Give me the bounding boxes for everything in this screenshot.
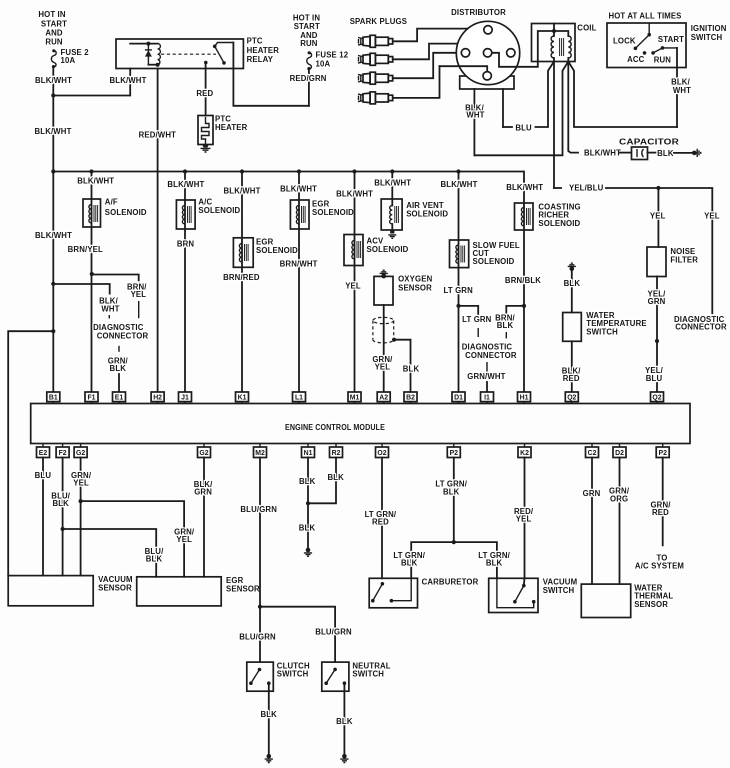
svg-text:M1: M1 bbox=[350, 395, 360, 402]
wire coil to YEL/BLU line bbox=[553, 62, 555, 189]
wire C2 column bbox=[591, 458, 593, 585]
relay diode D1 bbox=[145, 44, 152, 65]
svg-text:BLK: BLK bbox=[564, 279, 581, 288]
ignition ACC contact bbox=[643, 51, 647, 55]
node A/F diag branch bbox=[90, 272, 94, 276]
coil core bbox=[560, 38, 564, 56]
svg-text:F1: F1 bbox=[87, 395, 95, 402]
label A/C SOLENOID bbox=[198, 197, 240, 214]
label DIAGNOSTIC CONNECTOR (left) bbox=[93, 323, 148, 341]
svg-text:BLU/GRN: BLU/GRN bbox=[240, 505, 277, 514]
label EGR SOLENOID (L1) bbox=[312, 200, 354, 218]
svg-text:HEATER: HEATER bbox=[215, 123, 248, 132]
node D1 diag branch bbox=[456, 304, 460, 308]
connector B1 bbox=[47, 392, 60, 404]
label BLU/ BLK (EGR drop) bbox=[145, 547, 164, 564]
spark plug 3 bbox=[358, 72, 393, 84]
svg-text:BLK/WHT: BLK/WHT bbox=[441, 180, 478, 189]
node coil top bbox=[552, 29, 556, 33]
svg-text:FUSE 12: FUSE 12 bbox=[316, 50, 349, 59]
ignition RUN arm bbox=[653, 48, 677, 53]
label GRN/ YEL (A2) bbox=[372, 355, 393, 372]
label YEL/ GRN bbox=[648, 290, 667, 307]
ACV solenoid box bbox=[344, 235, 363, 266]
wire plug4 to distributor bbox=[393, 66, 440, 98]
wire capacitor left lead bbox=[620, 152, 632, 154]
carburetor box bbox=[369, 578, 417, 608]
svg-text:BRN/RED: BRN/RED bbox=[223, 273, 260, 282]
ground (PTC heater) bbox=[201, 145, 211, 153]
svg-text:BLK: BLK bbox=[657, 149, 674, 158]
svg-text:CONNECTOR: CONNECTOR bbox=[465, 351, 517, 360]
svg-text:ACC: ACC bbox=[627, 55, 645, 64]
label NOISE FILTER bbox=[670, 247, 698, 265]
node bus M1 bbox=[352, 169, 356, 173]
air vent solenoid box bbox=[381, 199, 402, 230]
splice symbol (water temp) bbox=[568, 263, 576, 271]
connector G2 bbox=[74, 444, 87, 458]
label GRN/ ORG (D2) bbox=[609, 487, 630, 504]
node P2 branch bbox=[452, 540, 456, 544]
connector O2 bbox=[376, 444, 389, 458]
wire main BLK/WHT bus bbox=[53, 172, 524, 204]
svg-text:RED/WHT: RED/WHT bbox=[139, 131, 177, 140]
wire M2 branch to neutral switch bbox=[260, 607, 335, 662]
label BRN/ YEL (diag drop) bbox=[127, 283, 147, 300]
svg-text:RED: RED bbox=[652, 508, 669, 517]
node relay coil bottom bbox=[156, 63, 160, 67]
wire distributor lead down to BLU bbox=[502, 89, 504, 127]
wire BRN/YEL dash bbox=[138, 301, 140, 318]
connector P2 bbox=[447, 444, 460, 458]
wire B1 column bbox=[52, 172, 54, 393]
svg-text:H2: H2 bbox=[153, 395, 162, 402]
ground (clutch) bbox=[265, 754, 273, 763]
wire neutral switch to ground bbox=[343, 683, 345, 754]
label BLK/WHT (distributor) bbox=[465, 103, 485, 119]
EGR solenoid box (L1) bbox=[290, 200, 309, 229]
svg-text:ENGINE CONTROL MODULE: ENGINE CONTROL MODULE bbox=[285, 423, 385, 432]
ground (neutral) bbox=[340, 754, 348, 763]
svg-text:SOLENOID: SOLENOID bbox=[105, 208, 147, 217]
label GRN/ RED (P2 A/C) bbox=[650, 501, 671, 518]
svg-text:BLK: BLK bbox=[52, 499, 69, 508]
carburetor switch bbox=[371, 578, 411, 602]
svg-text:L1: L1 bbox=[295, 395, 303, 402]
svg-text:BLK: BLK bbox=[401, 559, 418, 568]
label TO A/C SYSTEM bbox=[635, 554, 684, 571]
clutch switch box bbox=[247, 662, 273, 691]
svg-text:WHT: WHT bbox=[101, 304, 119, 313]
svg-text:CONNECTOR: CONNECTOR bbox=[675, 323, 727, 332]
connector I1 bbox=[481, 392, 494, 404]
label VACUUM SENSOR bbox=[98, 575, 133, 592]
svg-text:SOLENOID: SOLENOID bbox=[367, 245, 409, 254]
svg-text:RUN: RUN bbox=[654, 56, 672, 65]
connector J1 bbox=[179, 392, 192, 404]
wire A/F column bbox=[91, 172, 93, 393]
wire GRN/WHT to I1 bbox=[486, 382, 488, 392]
svg-text:BLK/WHT: BLK/WHT bbox=[584, 148, 621, 157]
connector Q2 (water temp) bbox=[565, 392, 578, 404]
coil primary winding bbox=[551, 36, 554, 58]
svg-text:G2: G2 bbox=[199, 450, 208, 457]
wire N1 column bbox=[307, 458, 309, 551]
svg-text:F2: F2 bbox=[59, 450, 67, 457]
svg-text:START: START bbox=[294, 22, 320, 31]
svg-text:BLK/WHT: BLK/WHT bbox=[35, 76, 72, 85]
wire fuse2 down to bus bbox=[52, 68, 54, 172]
connector D1 bbox=[452, 392, 465, 404]
connector F2 bbox=[56, 444, 69, 458]
svg-text:GRN: GRN bbox=[194, 488, 212, 497]
EGR solenoid coil (K1) bbox=[239, 244, 248, 262]
svg-text:HOT IN: HOT IN bbox=[38, 10, 66, 19]
neutral switch box bbox=[322, 662, 349, 691]
wire plug2 to distributor bbox=[393, 44, 511, 60]
svg-text:RED: RED bbox=[563, 374, 580, 383]
svg-text:BLK: BLK bbox=[146, 555, 163, 564]
wire coil left terminal stubs bbox=[553, 58, 555, 62]
relay switch bbox=[204, 43, 233, 65]
distributor towers bbox=[484, 26, 492, 34]
svg-text:BLK/WHT: BLK/WHT bbox=[77, 176, 114, 185]
svg-text:BRN: BRN bbox=[177, 240, 195, 249]
svg-text:SOLENOID: SOLENOID bbox=[538, 219, 580, 228]
node bus B1 bbox=[51, 169, 55, 173]
wire H1 branch to BRN/BLK drop bbox=[506, 306, 524, 313]
svg-text:BLK: BLK bbox=[336, 717, 353, 726]
label BLU/ BLK (F2) bbox=[51, 491, 70, 508]
node F2 branch bbox=[61, 527, 65, 531]
node M2 branch bbox=[258, 605, 262, 609]
spark plug 2 bbox=[358, 53, 393, 65]
svg-text:YEL: YEL bbox=[650, 212, 666, 221]
wire junction to relay coil bbox=[53, 69, 130, 96]
svg-text:CAPACITOR: CAPACITOR bbox=[619, 137, 679, 146]
wire air vent column bbox=[391, 172, 393, 200]
svg-text:BLK: BLK bbox=[110, 364, 127, 373]
svg-text:SWITCH: SWITCH bbox=[277, 670, 309, 679]
svg-text:AND: AND bbox=[45, 29, 63, 38]
node bus D1 bbox=[456, 169, 460, 173]
svg-text:OXYGEN: OXYGEN bbox=[398, 275, 432, 284]
wire B1 branch to vacuum sensor bbox=[8, 331, 53, 575]
svg-text:E1: E1 bbox=[115, 395, 124, 402]
svg-text:RED: RED bbox=[196, 89, 213, 98]
svg-text:BLK: BLK bbox=[403, 364, 420, 373]
ignition switch box bbox=[607, 23, 686, 68]
wire noise filter column upper bbox=[657, 188, 659, 247]
A/F solenoid coil bbox=[89, 205, 98, 223]
wire GRN/BLK to E1 bbox=[118, 374, 120, 392]
vacuum switch contacts bbox=[497, 578, 536, 607]
svg-text:BRN/WHT: BRN/WHT bbox=[280, 260, 318, 269]
wire coil to ignition switch BLK/WHT bbox=[568, 62, 677, 128]
label GRN/ YEL (G2) bbox=[71, 471, 92, 488]
svg-text:BLK: BLK bbox=[299, 477, 316, 486]
EGR sensor box bbox=[137, 577, 222, 606]
label YEL/ BLU (to Q2) bbox=[645, 366, 664, 383]
connector E2 bbox=[37, 444, 50, 458]
wire P2(A/C) column bbox=[662, 458, 664, 546]
svg-text:BLK: BLK bbox=[327, 473, 344, 482]
node bus J1 bbox=[183, 169, 187, 173]
wire BLU right segment to coil bbox=[536, 62, 555, 128]
label GRN/ YEL (EGR drop) bbox=[174, 528, 195, 545]
A/F solenoid box bbox=[83, 199, 101, 227]
svg-text:WHT: WHT bbox=[673, 86, 691, 95]
label BLK/WHT (ignition) bbox=[671, 77, 691, 95]
wire noise filter column lower bbox=[656, 277, 658, 393]
svg-text:GRN: GRN bbox=[583, 489, 601, 498]
svg-text:RELAY: RELAY bbox=[247, 55, 274, 64]
svg-text:BLK: BLK bbox=[486, 559, 503, 568]
connector A2 bbox=[377, 392, 390, 404]
wire E2 to vacuum sensor bbox=[42, 458, 44, 576]
EGR solenoid coil (L1) bbox=[296, 206, 305, 224]
connector K2 bbox=[518, 444, 531, 458]
wire O2 column to carburetor bbox=[381, 458, 383, 579]
wire BLK/WHT dash bbox=[108, 315, 110, 319]
wire G2 column bbox=[80, 458, 82, 576]
svg-text:K2: K2 bbox=[520, 450, 529, 457]
wire A/C column bbox=[184, 172, 186, 393]
svg-text:BLU/GRN: BLU/GRN bbox=[315, 628, 352, 637]
label DIAGNOSTIC CONNECTOR (center) bbox=[462, 343, 517, 360]
label LT GRN/ RED (O2) bbox=[365, 510, 397, 527]
svg-text:LOCK: LOCK bbox=[613, 36, 636, 45]
connector P2 (A/C) bbox=[656, 444, 669, 458]
connector Q2 (noise filter) bbox=[651, 392, 664, 404]
svg-text:K1: K1 bbox=[238, 395, 247, 402]
wire fuse12 down to relay feed bbox=[308, 70, 310, 106]
svg-text:SOLENOID: SOLENOID bbox=[473, 257, 515, 266]
wire relay switch output down to PTC heater bbox=[205, 63, 207, 116]
svg-text:BLK: BLK bbox=[443, 487, 460, 496]
connector D2 bbox=[613, 444, 626, 458]
svg-text:BRN/BLK: BRN/BLK bbox=[505, 276, 541, 285]
svg-text:O2: O2 bbox=[377, 450, 386, 457]
svg-text:RUN: RUN bbox=[300, 39, 318, 48]
slow fuel cut solenoid box bbox=[450, 240, 469, 268]
wire oxygen sensor down through shield bbox=[383, 305, 385, 392]
label HOT IN START AND RUN (fuse12) bbox=[293, 13, 321, 48]
label WATER THERMAL SENSOR bbox=[634, 583, 673, 608]
label BLK/ GRN (G2 EGR) bbox=[194, 480, 213, 497]
connector M2 bbox=[254, 444, 267, 458]
clutch switch contacts bbox=[249, 668, 271, 685]
ignition feed stub bbox=[648, 23, 650, 35]
A/C solenoid coil bbox=[182, 206, 191, 224]
PTC heater element bbox=[202, 117, 210, 145]
wire BLK to ground bbox=[674, 152, 692, 154]
connector H2 bbox=[151, 392, 164, 404]
wire D2 column bbox=[619, 458, 621, 585]
svg-text:BLK/WHT: BLK/WHT bbox=[35, 231, 72, 240]
node N1/R2 junction bbox=[306, 501, 310, 505]
neutral switch contacts bbox=[324, 668, 346, 685]
label BLK/ WHT (diag drop) bbox=[99, 297, 120, 314]
svg-text:N1: N1 bbox=[304, 450, 313, 457]
label ACV SOLENOID bbox=[367, 237, 409, 254]
svg-text:LT GRN: LT GRN bbox=[462, 315, 492, 324]
wire plug4 inside cap bbox=[440, 66, 488, 71]
wire G2(EGR) column bbox=[203, 458, 205, 577]
svg-text:BLK/WHT: BLK/WHT bbox=[280, 184, 317, 193]
svg-text:YEL/BLU: YEL/BLU bbox=[569, 184, 604, 193]
svg-text:SWITCH: SWITCH bbox=[543, 586, 575, 595]
connector E1 bbox=[113, 392, 126, 404]
svg-text:BLU/GRN: BLU/GRN bbox=[239, 633, 276, 642]
svg-text:G2: G2 bbox=[76, 450, 85, 457]
svg-text:SENSOR: SENSOR bbox=[98, 584, 132, 593]
svg-text:P2: P2 bbox=[658, 450, 667, 457]
wire BLU left segment bbox=[503, 126, 512, 128]
svg-text:GRN/WHT: GRN/WHT bbox=[467, 372, 505, 381]
svg-text:B2: B2 bbox=[406, 395, 415, 402]
label WATER TEMPERATURE SWITCH bbox=[586, 311, 646, 337]
svg-text:SENSOR: SENSOR bbox=[226, 584, 260, 593]
svg-text:M2: M2 bbox=[255, 450, 265, 457]
wire BRN/BLK dash bbox=[505, 332, 507, 338]
node G2 branch bbox=[79, 499, 83, 503]
label IGNITION SWITCH bbox=[691, 24, 727, 42]
node shield tap bbox=[392, 338, 396, 342]
svg-text:SOLENOID: SOLENOID bbox=[312, 208, 354, 217]
label LT GRN/ BLK (P2) bbox=[435, 480, 467, 497]
svg-text:A/F: A/F bbox=[105, 198, 118, 207]
wire plug1 to distributor bbox=[393, 29, 484, 42]
svg-text:CONNECTOR: CONNECTOR bbox=[97, 332, 149, 341]
svg-text:BLK: BLK bbox=[497, 321, 514, 330]
label RED/ YEL (K2) bbox=[514, 507, 534, 524]
wire K2 column to vacuum switch bbox=[523, 458, 526, 586]
ACV solenoid coil bbox=[352, 241, 361, 259]
capacitor box bbox=[632, 147, 648, 160]
wire M1 column bbox=[354, 172, 356, 393]
svg-text:10A: 10A bbox=[61, 56, 76, 65]
relay dashed actuator link bbox=[161, 53, 216, 55]
connector N1 bbox=[302, 444, 315, 458]
capacitor symbol bbox=[637, 149, 644, 157]
noise filter box bbox=[647, 247, 666, 277]
node bus F1 bbox=[89, 169, 93, 173]
label HOT IN START AND RUN (fuse2) bbox=[38, 10, 67, 47]
wire water temp switch to Q2 bbox=[571, 341, 573, 392]
wire P2 branch left to carburetor bbox=[411, 542, 454, 578]
label SLOW FUEL CUT SOLENOID bbox=[473, 241, 520, 266]
spark plug 4 bbox=[358, 92, 393, 104]
wire shield to B2 bbox=[394, 340, 410, 392]
connector L1 bbox=[293, 392, 306, 404]
svg-text:DISTRIBUTOR: DISTRIBUTOR bbox=[451, 8, 506, 17]
svg-text:SPARK PLUGS: SPARK PLUGS bbox=[350, 17, 407, 26]
svg-text:IGNITION: IGNITION bbox=[691, 24, 727, 33]
relay coil bottom wire bbox=[148, 64, 157, 66]
label EGR SOLENOID (K1) bbox=[256, 238, 298, 255]
label DIAGNOSTIC CONNECTOR (right) bbox=[674, 315, 727, 332]
svg-text:P2: P2 bbox=[450, 450, 459, 457]
svg-text:START: START bbox=[41, 19, 67, 28]
svg-text:HOT AT ALL TIMES: HOT AT ALL TIMES bbox=[609, 12, 682, 21]
label COASTING RICHER SOLENOID bbox=[538, 203, 580, 228]
svg-text:SOLENOID: SOLENOID bbox=[198, 206, 240, 215]
fuse F2 symbol bbox=[51, 49, 56, 68]
svg-text:BLU: BLU bbox=[35, 471, 52, 480]
wire YEL/BLU main run bbox=[606, 188, 712, 313]
svg-text:BLK: BLK bbox=[299, 524, 316, 533]
connector F1 bbox=[85, 392, 98, 404]
wire coil to capacitor bbox=[568, 62, 578, 153]
connector R2 bbox=[330, 444, 343, 458]
svg-text:PTC: PTC bbox=[247, 37, 263, 46]
svg-text:BLK/WHT: BLK/WHT bbox=[336, 189, 373, 198]
svg-text:BRN/YEL: BRN/YEL bbox=[68, 245, 103, 254]
wire F2 branch to EGR sensor bbox=[63, 529, 157, 577]
coasting richer solenoid coil bbox=[521, 208, 530, 226]
svg-text:RED/GRN: RED/GRN bbox=[290, 74, 327, 83]
air vent solenoid coil bbox=[390, 199, 399, 230]
PTC heater box bbox=[198, 116, 213, 145]
coil top stub bbox=[553, 24, 555, 37]
svg-text:LT GRN: LT GRN bbox=[444, 286, 474, 295]
splice symbol (oxygen sensor) bbox=[380, 270, 388, 278]
ECM box bbox=[31, 404, 690, 444]
label AIR VENT SOLENOID bbox=[406, 201, 448, 219]
svg-text:YEL: YEL bbox=[345, 281, 361, 290]
svg-text:BLK/WHT: BLK/WHT bbox=[374, 178, 411, 187]
label FUSE 12 10A bbox=[316, 50, 349, 68]
node B1 vacuum sensor branch bbox=[51, 329, 55, 333]
coil secondary winding bbox=[568, 36, 571, 58]
svg-text:SENSOR: SENSOR bbox=[398, 284, 432, 293]
wire center tower to coil bbox=[492, 53, 538, 67]
connector B2 bbox=[404, 392, 417, 404]
svg-text:Q2: Q2 bbox=[567, 395, 576, 402]
label FUSE 2 10A bbox=[61, 48, 90, 65]
wire relay feed from fuse12 bbox=[233, 43, 309, 106]
svg-text:A/C SYSTEM: A/C SYSTEM bbox=[635, 562, 684, 571]
label VACUUM SWITCH bbox=[543, 578, 578, 595]
wire D1 column bbox=[458, 172, 460, 393]
label BRN/ BLK (diag drop) bbox=[495, 313, 515, 330]
node H1 diag branch bbox=[522, 304, 526, 308]
wire plug3 to distributor bbox=[393, 53, 462, 78]
slow fuel cut solenoid coil bbox=[456, 245, 465, 263]
wire ignition output down bbox=[676, 48, 678, 127]
connector G2 (EGR) bbox=[198, 444, 211, 458]
svg-text:FILTER: FILTER bbox=[670, 256, 698, 265]
wire distributor BLK/WHT down bbox=[473, 89, 475, 155]
wire splice to water temp switch bbox=[571, 270, 573, 313]
svg-text:D2: D2 bbox=[615, 450, 624, 457]
svg-text:J1: J1 bbox=[181, 395, 189, 402]
distributor cap circle bbox=[456, 21, 519, 84]
oxygen sensor box bbox=[374, 276, 393, 305]
label PTC HEATER RELAY bbox=[247, 37, 280, 65]
connector C2 bbox=[586, 444, 599, 458]
svg-text:SENSOR: SENSOR bbox=[634, 600, 668, 609]
svg-text:BLK/WHT: BLK/WHT bbox=[167, 180, 204, 189]
node B1 diag branch bbox=[51, 282, 55, 286]
wire P2 branch right to vacuum switch bbox=[454, 542, 497, 578]
wire H1 column bbox=[523, 203, 525, 392]
coil box bbox=[532, 24, 576, 62]
svg-text:SOLENOID: SOLENOID bbox=[256, 246, 298, 255]
wire diag connector dash down bbox=[118, 346, 120, 352]
EGR solenoid box (K1) bbox=[233, 238, 253, 267]
